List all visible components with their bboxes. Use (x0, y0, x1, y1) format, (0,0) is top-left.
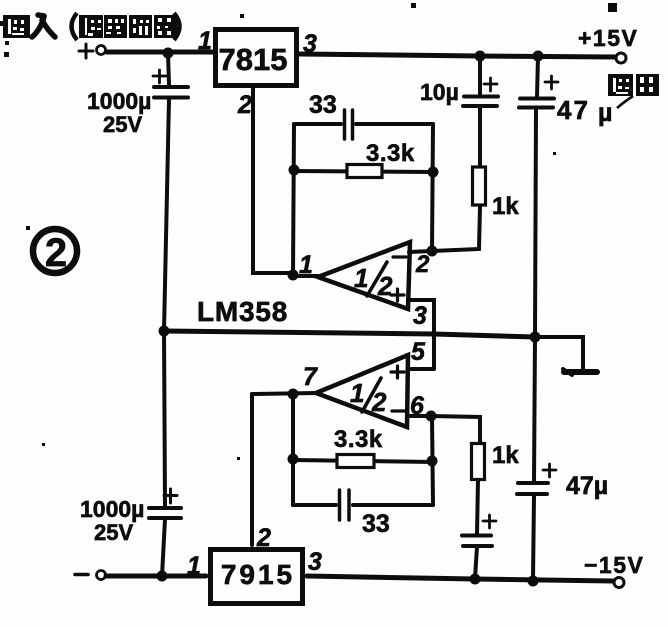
svg-text:1: 1 (198, 27, 212, 55)
char zheng (104, 15, 127, 38)
wire pin5 (408, 367, 433, 371)
svg-text:1000µ: 1000µ (80, 496, 144, 522)
terminal -15V output (614, 578, 624, 588)
wire feedback right vertical bottom (432, 416, 433, 505)
label 47u pointer curve (617, 96, 633, 108)
resistor R3 1k (473, 167, 486, 205)
wire pin6 (407, 416, 480, 443)
svg-text:3.3k: 3.3k (334, 426, 383, 453)
char paren close (174, 13, 180, 40)
svg-text:7815: 7815 (219, 42, 288, 77)
node bottom 47u junction (528, 576, 539, 587)
symbol circled 2 (33, 229, 77, 273)
ground (564, 369, 597, 375)
wire pin1 (293, 274, 318, 278)
svg-text:3: 3 (308, 548, 322, 576)
svg-text:2: 2 (237, 91, 252, 119)
capacitor C8 plates (462, 536, 492, 547)
label 1/2 slash op2 (362, 378, 381, 412)
regulator U2 7815 (216, 30, 297, 86)
wire bottom rail right (307, 576, 613, 581)
capacitor C4 33 plates (340, 490, 350, 520)
noise specks (4, 3, 617, 460)
svg-text:1: 1 (354, 263, 368, 293)
opamp1 plus sign (391, 289, 404, 301)
char chu (636, 74, 659, 96)
label 1/2 slash op1 (367, 262, 387, 296)
wire pin2 7815 (253, 88, 292, 273)
node 3.3k right (428, 167, 439, 178)
wire bottom rail left (106, 574, 206, 579)
node midline right junction (530, 332, 541, 343)
terminal input plus (97, 46, 106, 55)
node midline left (159, 326, 170, 337)
terminal +15V output (616, 53, 626, 63)
char shu (0, 15, 30, 38)
svg-text:3: 3 (413, 302, 427, 330)
terminal input minus (97, 571, 106, 580)
opamp1 minus sign (393, 255, 406, 258)
svg-text:25V: 25V (94, 520, 133, 545)
svg-text:1: 1 (350, 378, 364, 408)
resistor R2 3.3k bottom (293, 460, 434, 462)
svg-text:3: 3 (303, 30, 317, 58)
op-amp U1B half LM358 (316, 355, 408, 427)
svg-text:5: 5 (411, 338, 426, 366)
svg-text:3.3k: 3.3k (366, 140, 415, 167)
node bottom left junction (157, 571, 168, 582)
capacitor C6 47u plates (519, 99, 554, 108)
node 47u tap (533, 51, 544, 62)
node input+ junction (163, 48, 174, 59)
wire right rail middle (534, 109, 536, 481)
svg-text:1k: 1k (492, 442, 519, 469)
svg-text:2: 2 (415, 251, 430, 278)
wire right rail bottom (533, 496, 534, 580)
svg-text:µ: µ (598, 99, 612, 127)
node 3.3k bottom left (288, 454, 299, 465)
node pin6 junction (426, 411, 437, 422)
wire 10u to 1k (478, 107, 482, 167)
wire top rail left (107, 50, 213, 55)
capacitor C2 1000u25V plates (149, 506, 181, 510)
wire left rail middle (164, 99, 169, 331)
wire to ground (535, 337, 583, 369)
wire feedback right vertical top (432, 124, 433, 251)
wire feedback left vertical bottom (291, 394, 295, 505)
wire feedback left vertical top (293, 124, 294, 275)
svg-text:7: 7 (303, 363, 318, 391)
svg-text:2: 2 (371, 387, 387, 417)
svg-text:6: 6 (410, 392, 425, 420)
svg-text:1k: 1k (492, 193, 519, 220)
wire 10u branch (478, 56, 482, 95)
regulator U3 7915 (211, 550, 303, 604)
node pin2 junction (427, 246, 438, 257)
node bottom cap junction (470, 574, 481, 585)
svg-text:LM358: LM358 (197, 296, 288, 327)
svg-text:1: 1 (187, 552, 201, 580)
wire 1k to cap (477, 480, 478, 534)
char liu (129, 15, 152, 38)
wire left rail upper (168, 53, 169, 85)
wire pin3 (408, 300, 434, 369)
node pin7 junction (288, 389, 299, 400)
wire midline (164, 331, 535, 337)
capacitor C5 10u plates (463, 97, 498, 107)
svg-text:−15V: −15V (584, 552, 644, 578)
wire pin7 (252, 393, 316, 394)
svg-text:+15V: +15V (578, 25, 638, 51)
svg-text:33: 33 (309, 91, 337, 119)
node 3.3k bottom right (427, 456, 438, 467)
wire top rail right (299, 54, 615, 57)
wire left rail bottom (162, 519, 165, 576)
svg-text:25V: 25V (103, 112, 142, 137)
wire 33 bottom loop (293, 503, 433, 507)
capacitor C3 33 plates (345, 110, 353, 139)
wire pin2 7915 (250, 394, 254, 545)
resistor R4 1k bottom (472, 444, 485, 480)
char shu2 (608, 74, 633, 96)
svg-text:1000µ: 1000µ (87, 88, 151, 114)
svg-text:47µ: 47µ (566, 472, 608, 500)
capacitor C7 47u bottom plates (517, 483, 548, 494)
svg-text:47: 47 (557, 95, 590, 125)
resistor R1 3.3k (294, 171, 433, 172)
node 3.3k left (289, 165, 300, 176)
char ru (32, 15, 55, 37)
opamp2 minus sign (392, 409, 405, 412)
char jie (79, 15, 103, 38)
svg-text:2: 2 (377, 271, 393, 301)
svg-text:33: 33 (362, 510, 390, 538)
char paren open (72, 13, 78, 40)
svg-text:10µ: 10µ (420, 79, 459, 105)
wire left rail lower (164, 331, 165, 506)
char qi (154, 15, 177, 38)
wire cap to bottom rail (475, 547, 477, 578)
wire 47u top branch (537, 56, 538, 97)
svg-text:2: 2 (256, 524, 271, 552)
svg-text:7915: 7915 (221, 559, 295, 590)
opamp2 plus sign (391, 366, 404, 378)
label Chinese input 输入(接整流器) fake glyphs (0, 13, 180, 40)
node 10u tap (475, 51, 486, 62)
svg-text:1: 1 (299, 251, 313, 279)
wire 33 top loop (294, 122, 433, 126)
op-amp U1A half LM358 (318, 242, 410, 309)
svg-text:2: 2 (45, 231, 67, 275)
capacitor C1 1000u25V plates (154, 85, 188, 89)
node pin1 junction (288, 270, 299, 281)
wire pin2 (409, 207, 480, 252)
label Chinese output 输出 fake glyphs (608, 74, 659, 96)
